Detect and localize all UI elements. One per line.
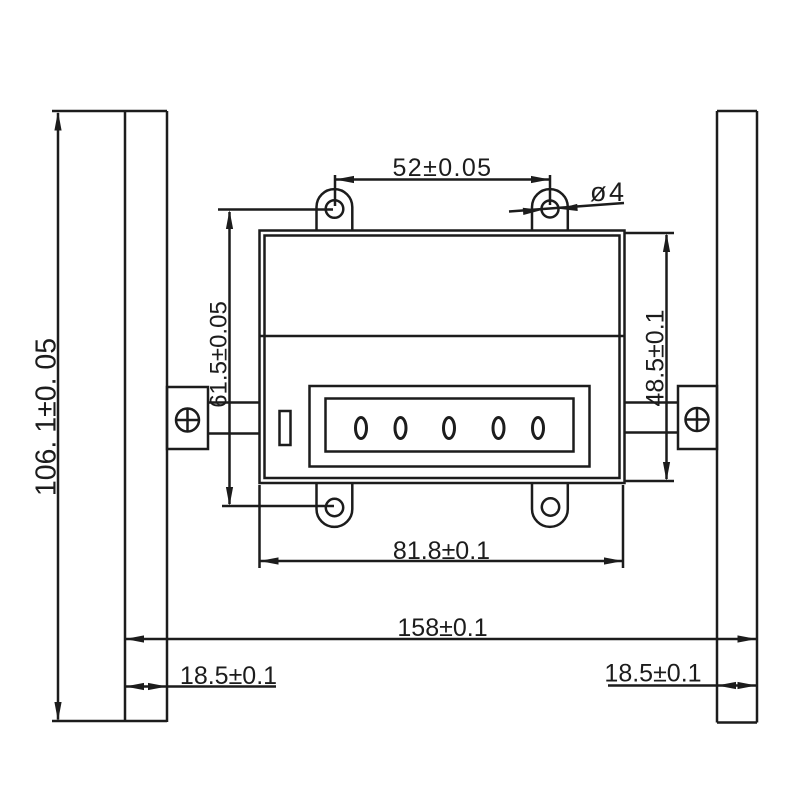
dia4 arrow left	[523, 206, 542, 215]
dim 61.5 arrow down	[226, 487, 233, 506]
left arm lines	[208, 403, 260, 434]
svg-text:18.5±0.1: 18.5±0.1	[604, 660, 701, 688]
dim 106.1 arrow down	[54, 702, 61, 721]
svg-text:52±0.05: 52±0.05	[393, 154, 493, 182]
digit 0 fifth	[533, 418, 544, 439]
dim 81.8 ext right	[622, 485, 625, 568]
dim 158 arrow left	[125, 635, 144, 642]
dim 61.5 ext top	[218, 208, 333, 211]
svg-text:106. 1±0. 05: 106. 1±0. 05	[31, 338, 63, 496]
dim 48.5 ext top	[625, 232, 674, 235]
dim 52 line	[335, 178, 550, 181]
right arm lines	[625, 403, 679, 433]
top right ear	[532, 189, 568, 230]
dim 61.5 line	[228, 212, 231, 504]
dim 106.1 line	[57, 113, 60, 720]
digit 0 second	[395, 418, 406, 439]
dim 81.8 arrow left	[260, 557, 279, 564]
bottom left ear	[317, 483, 353, 527]
top left ear hole	[326, 200, 344, 218]
dim 81.8 arrow right	[604, 557, 623, 564]
counter body outer	[260, 231, 625, 484]
dim 48.5 arrow down	[663, 462, 670, 481]
dim 48.5 line	[665, 235, 668, 479]
dim 48.5 ext bottom	[625, 480, 674, 483]
bottom right ear hole	[542, 498, 559, 515]
dim 158 arrow right	[738, 635, 757, 642]
dim 18.5 right line	[608, 684, 757, 687]
left screw head	[176, 409, 199, 432]
dim 52 arrow right	[531, 176, 550, 183]
svg-text:18.5±0.1: 18.5±0.1	[180, 662, 277, 690]
right screw head	[686, 408, 709, 431]
dim 18.5 right arrow right	[738, 682, 757, 689]
right screw cross	[686, 408, 709, 431]
dim 52 arrow left	[335, 176, 354, 183]
dia4 arrow right	[558, 204, 577, 213]
counter body inner	[265, 236, 620, 479]
dia4 leader line	[509, 203, 624, 212]
svg-text:158±0.1: 158±0.1	[397, 614, 487, 642]
digit 0 fourth	[493, 418, 504, 439]
body divider line	[260, 335, 624, 338]
dim 18.5 right arrow left	[717, 682, 736, 689]
reset slot	[280, 411, 291, 445]
left screw cross	[176, 409, 199, 432]
top right ear hole	[542, 201, 559, 218]
dim 158 line	[125, 638, 757, 641]
svg-text:61.5±0.05: 61.5±0.05	[206, 301, 233, 408]
dim 18.5 left arrow left	[125, 683, 144, 690]
dim 61.5 arrow up	[226, 210, 233, 229]
bottom right ear	[532, 483, 568, 527]
left bracket plate	[167, 387, 208, 449]
dim 81.8 ext left	[258, 485, 261, 568]
dim 106.1 arrow up	[54, 112, 61, 131]
dim 18.5 left arrow right	[148, 683, 167, 690]
bottom left ear hole	[326, 499, 343, 516]
dim 81.8 line	[260, 560, 624, 563]
dim 48.5 arrow up	[663, 233, 670, 252]
svg-text:48.5±0.1: 48.5±0.1	[642, 309, 670, 406]
dim 52 ext right	[549, 175, 552, 205]
left mounting rail	[52, 111, 167, 722]
dim 61.5 ext bottom	[222, 505, 334, 508]
svg-text:81.8±0.1: 81.8±0.1	[393, 537, 490, 565]
right mounting rail	[717, 111, 757, 723]
right bracket plate	[678, 386, 717, 449]
svg-text:ø4: ø4	[590, 177, 627, 207]
dim 18.5 left line	[125, 685, 276, 688]
digit 0 third	[444, 418, 455, 439]
display bezel outer	[310, 386, 590, 467]
display bezel inner	[326, 399, 574, 452]
dim 52 ext left	[334, 175, 337, 206]
digit 0 first	[356, 418, 367, 439]
top left ear	[317, 189, 353, 230]
